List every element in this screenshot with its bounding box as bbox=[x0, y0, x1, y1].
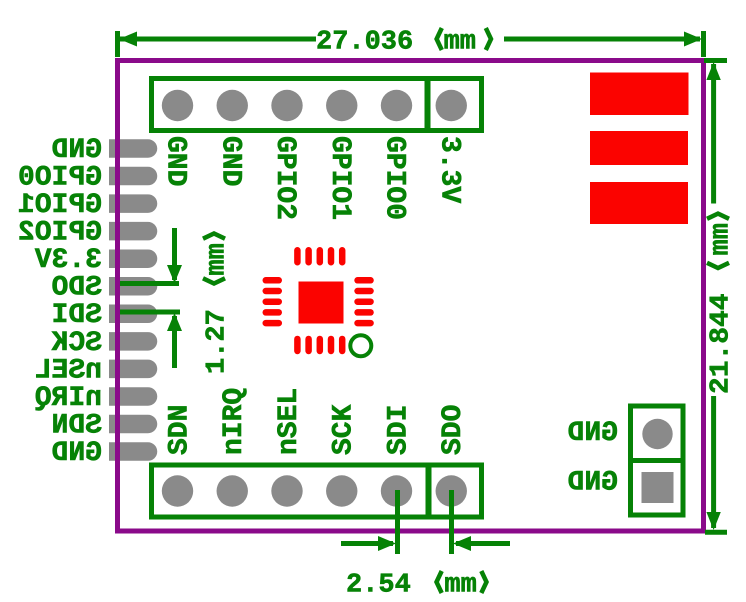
svg-text:mm: mm bbox=[203, 243, 233, 275]
IC U1 center thermal pad bbox=[299, 282, 344, 324]
dimension text 21.844 (mm) bbox=[707, 214, 737, 394]
svg-text:GND: GND bbox=[52, 135, 102, 166]
left SMD pad SDN (row 11) bbox=[109, 415, 157, 434]
svg-text:SCK: SCK bbox=[51, 328, 102, 359]
dimension 21.844 (mm) right bbox=[704, 61, 727, 533]
svg-text:SDI: SDI bbox=[52, 300, 102, 331]
svg-text:GND: GND bbox=[214, 136, 245, 186]
svg-text:GND: GND bbox=[568, 468, 618, 499]
svg-text:GND: GND bbox=[568, 418, 618, 449]
svg-text:GND: GND bbox=[160, 136, 191, 186]
dimension 1.27 (mm) left bbox=[167, 228, 182, 368]
dimension text 1.27 (mm) bbox=[203, 234, 233, 375]
U1 pin 1 marker ring bbox=[350, 335, 371, 356]
svg-text:SDN: SDN bbox=[52, 410, 102, 441]
J2 pad 6 (SDO) bbox=[436, 475, 467, 506]
antenna pad 1 (red, top right) bbox=[590, 73, 689, 116]
J2 divider between pin 5 and pin 6 bbox=[426, 465, 432, 517]
J1 divider between pin 5 and pin 6 bbox=[425, 79, 431, 131]
left SMD pad nSEL (row 9) bbox=[109, 360, 157, 379]
svg-text:SCK: SCK bbox=[329, 404, 360, 455]
wire SDI bbox=[118, 310, 180, 315]
U1 pads right side (pins) bbox=[354, 277, 374, 326]
svg-text:SDI: SDI bbox=[383, 405, 414, 455]
J2 pad 5 (SDI) bbox=[381, 475, 412, 506]
J1 pad 6 (3.3V) bbox=[436, 90, 467, 121]
connector J2 bottom header outline bbox=[152, 465, 482, 517]
svg-text:nSEL: nSEL bbox=[35, 355, 102, 386]
svg-text:3.3V: 3.3V bbox=[433, 136, 464, 203]
U1 pads bottom side (pins) bbox=[294, 336, 345, 355]
U1 pads top side (pins) bbox=[294, 247, 345, 266]
antenna pad 2 (red, middle right) bbox=[590, 131, 688, 165]
left SMD pad GPIO1 (row 3) bbox=[109, 194, 157, 213]
J1 pad 4 (GPIO1) bbox=[326, 90, 357, 121]
svg-text:nSEL: nSEL bbox=[274, 388, 305, 455]
svg-text:3.3V: 3.3V bbox=[35, 245, 102, 276]
connector J1 top header outline bbox=[152, 79, 482, 131]
svg-text:nIRQ: nIRQ bbox=[35, 383, 102, 414]
svg-text:GPIO1: GPIO1 bbox=[18, 190, 102, 221]
wire SDO bbox=[118, 281, 179, 286]
svg-text:GPIO1: GPIO1 bbox=[324, 136, 355, 220]
dimension 2.54 (mm) bottom bbox=[341, 490, 510, 554]
svg-text:GPIO0: GPIO0 bbox=[18, 163, 102, 194]
svg-text:GPIO2: GPIO2 bbox=[269, 136, 300, 220]
svg-text:mm: mm bbox=[707, 223, 737, 255]
J2 pad 1 (SDN) bbox=[162, 475, 193, 506]
board outline bbox=[118, 61, 704, 532]
J2 pad 3 (nSEL) bbox=[271, 475, 302, 506]
dimension text 2.54 (mm) bbox=[346, 571, 487, 601]
left SMD pad SCK (row 8) bbox=[109, 332, 157, 351]
svg-text:2.54: 2.54 bbox=[346, 571, 411, 601]
J2 pad 2 (nIRQ) bbox=[217, 475, 248, 506]
svg-text:nIRQ: nIRQ bbox=[219, 388, 250, 455]
svg-text:mm: mm bbox=[444, 28, 476, 58]
svg-text:27.036: 27.036 bbox=[316, 28, 413, 58]
J1 pad 1 (GND) bbox=[162, 90, 193, 121]
svg-text:mm: mm bbox=[444, 571, 476, 601]
J2 pad 4 (SCK) bbox=[326, 475, 357, 506]
left SMD pad GND (row 12) bbox=[109, 442, 157, 461]
antenna pad 3 (red, lower right) bbox=[590, 182, 688, 224]
left SMD pad GND (row 1) bbox=[109, 139, 157, 158]
left SMD pad 3.3V (row 5) bbox=[109, 249, 157, 268]
left SMD pad SDI (row 7) bbox=[109, 305, 157, 324]
GND test point box divider bbox=[631, 458, 684, 463]
svg-text:GND: GND bbox=[52, 438, 102, 469]
GND via (circle) bbox=[642, 419, 672, 449]
J1 pad 3 (GPIO2) bbox=[271, 90, 302, 121]
svg-text:SDO: SDO bbox=[438, 405, 469, 455]
GND test point box outline bbox=[631, 406, 684, 515]
svg-text:1.27: 1.27 bbox=[203, 309, 233, 374]
left SMD pad nIRQ (row 10) bbox=[109, 387, 157, 406]
svg-text:21.844: 21.844 bbox=[707, 294, 737, 395]
svg-text:SDN: SDN bbox=[164, 405, 195, 455]
svg-text:SDO: SDO bbox=[52, 273, 102, 304]
GND pad (square) bbox=[642, 472, 674, 503]
J1 pad 5 (GPIO0) bbox=[381, 90, 412, 121]
svg-text:GPIO2: GPIO2 bbox=[18, 218, 102, 249]
dimension 27.036 (mm) top bbox=[118, 31, 704, 57]
left SMD pad GPIO0 (row 2) bbox=[109, 167, 157, 186]
J1 pad 2 (GND) bbox=[217, 90, 248, 121]
left SMD pad SDO (row 6) bbox=[109, 277, 157, 296]
left SMD pad GPIO2 (row 4) bbox=[109, 222, 157, 241]
dimension text 27.036 (mm) bbox=[316, 28, 491, 58]
svg-text:GPIO0: GPIO0 bbox=[379, 136, 410, 220]
U1 pads left side (pins) bbox=[263, 277, 283, 326]
